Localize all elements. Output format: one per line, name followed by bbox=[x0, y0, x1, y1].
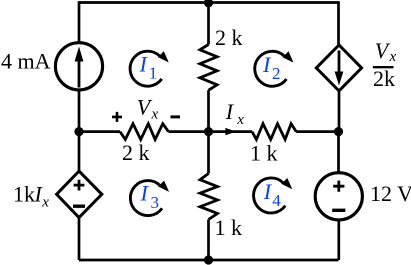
arrow Ix on wire bbox=[225, 128, 236, 135]
svg-text:2k: 2k bbox=[373, 66, 395, 91]
arrow inside diamond (down) bbox=[338, 51, 341, 74]
plus sign inside 12V bbox=[333, 181, 344, 192]
wire middle row segment B bbox=[168, 130, 252, 133]
resistor 1k horizontal bbox=[252, 124, 296, 140]
wire right column below middle bbox=[337, 132, 340, 174]
svg-text:4: 4 bbox=[272, 191, 281, 210]
svg-text:3: 3 bbox=[151, 193, 160, 212]
resistor 2k horizontal bbox=[120, 124, 168, 140]
svg-text:I: I bbox=[263, 179, 273, 204]
node dot center bbox=[204, 127, 213, 136]
voltage source 12V circle bbox=[315, 173, 362, 220]
svg-text:12 V: 12 V bbox=[370, 181, 411, 206]
svg-text:2 k: 2 k bbox=[215, 25, 243, 50]
mesh loop I2 arc bbox=[255, 51, 294, 86]
svg-text:1k: 1k bbox=[13, 181, 35, 206]
svg-text:x: x bbox=[41, 194, 49, 210]
svg-text:1 k: 1 k bbox=[215, 215, 243, 240]
mesh loop I4 arc bbox=[254, 178, 293, 213]
current source I=4mA circle bbox=[55, 43, 102, 90]
svg-text:2: 2 bbox=[272, 64, 281, 83]
svg-text:x: x bbox=[151, 106, 159, 122]
label minus of Vx bbox=[171, 115, 181, 118]
wire middle column top bbox=[207, 3, 210, 45]
node dot top-middle bbox=[204, 0, 213, 7]
node dot bottom-middle bbox=[204, 255, 213, 264]
svg-text:I: I bbox=[140, 181, 150, 206]
wire middle row segment C bbox=[296, 130, 338, 133]
wire middle row segment A bbox=[79, 130, 120, 133]
wire middle column mid bbox=[207, 90, 210, 132]
resistor 1k vertical bottom bbox=[200, 174, 218, 220]
node dot right-middle bbox=[334, 127, 343, 136]
svg-text:4 mA: 4 mA bbox=[1, 49, 51, 74]
minus sign inside diamond bbox=[73, 204, 85, 207]
svg-text:V: V bbox=[137, 95, 153, 120]
svg-text:x: x bbox=[236, 112, 244, 128]
node dot left-middle bbox=[74, 127, 83, 136]
wire middle column below middle bbox=[207, 132, 210, 174]
svg-text:V: V bbox=[375, 38, 391, 63]
wire left column mid bbox=[78, 90, 81, 133]
wire right column mid bbox=[338, 91, 341, 132]
current source arrow bbox=[78, 59, 81, 88]
svg-text:x: x bbox=[389, 49, 397, 65]
wire top horizontal bbox=[79, 1, 339, 4]
svg-text:1 k: 1 k bbox=[250, 141, 278, 166]
mesh loop I3 arc bbox=[130, 181, 169, 216]
svg-text:1: 1 bbox=[149, 63, 158, 82]
svg-text:I: I bbox=[225, 99, 235, 124]
svg-text:I: I bbox=[262, 52, 272, 77]
svg-text:2 k: 2 k bbox=[122, 140, 150, 165]
wire right column top bbox=[337, 1, 340, 45]
resistor 2k vertical bbox=[200, 45, 217, 91]
mesh loop I1 arc bbox=[130, 51, 169, 86]
label + of Vx bbox=[112, 112, 122, 122]
wire left column below middle bbox=[78, 132, 81, 172]
wire left column top bbox=[78, 1, 81, 43]
wire bottom horizontal bbox=[79, 259, 339, 262]
dependent source Vx/2k diamond bbox=[316, 45, 361, 91]
wire right column bottom bbox=[337, 220, 340, 261]
svg-text:I: I bbox=[139, 51, 149, 76]
wire left column bottom bbox=[78, 218, 81, 260]
dependent source 1kIx diamond bbox=[57, 171, 102, 218]
minus sign inside 12V bbox=[332, 209, 345, 212]
plus sign inside diamond bbox=[74, 180, 85, 191]
wire middle column bottom bbox=[207, 220, 210, 261]
